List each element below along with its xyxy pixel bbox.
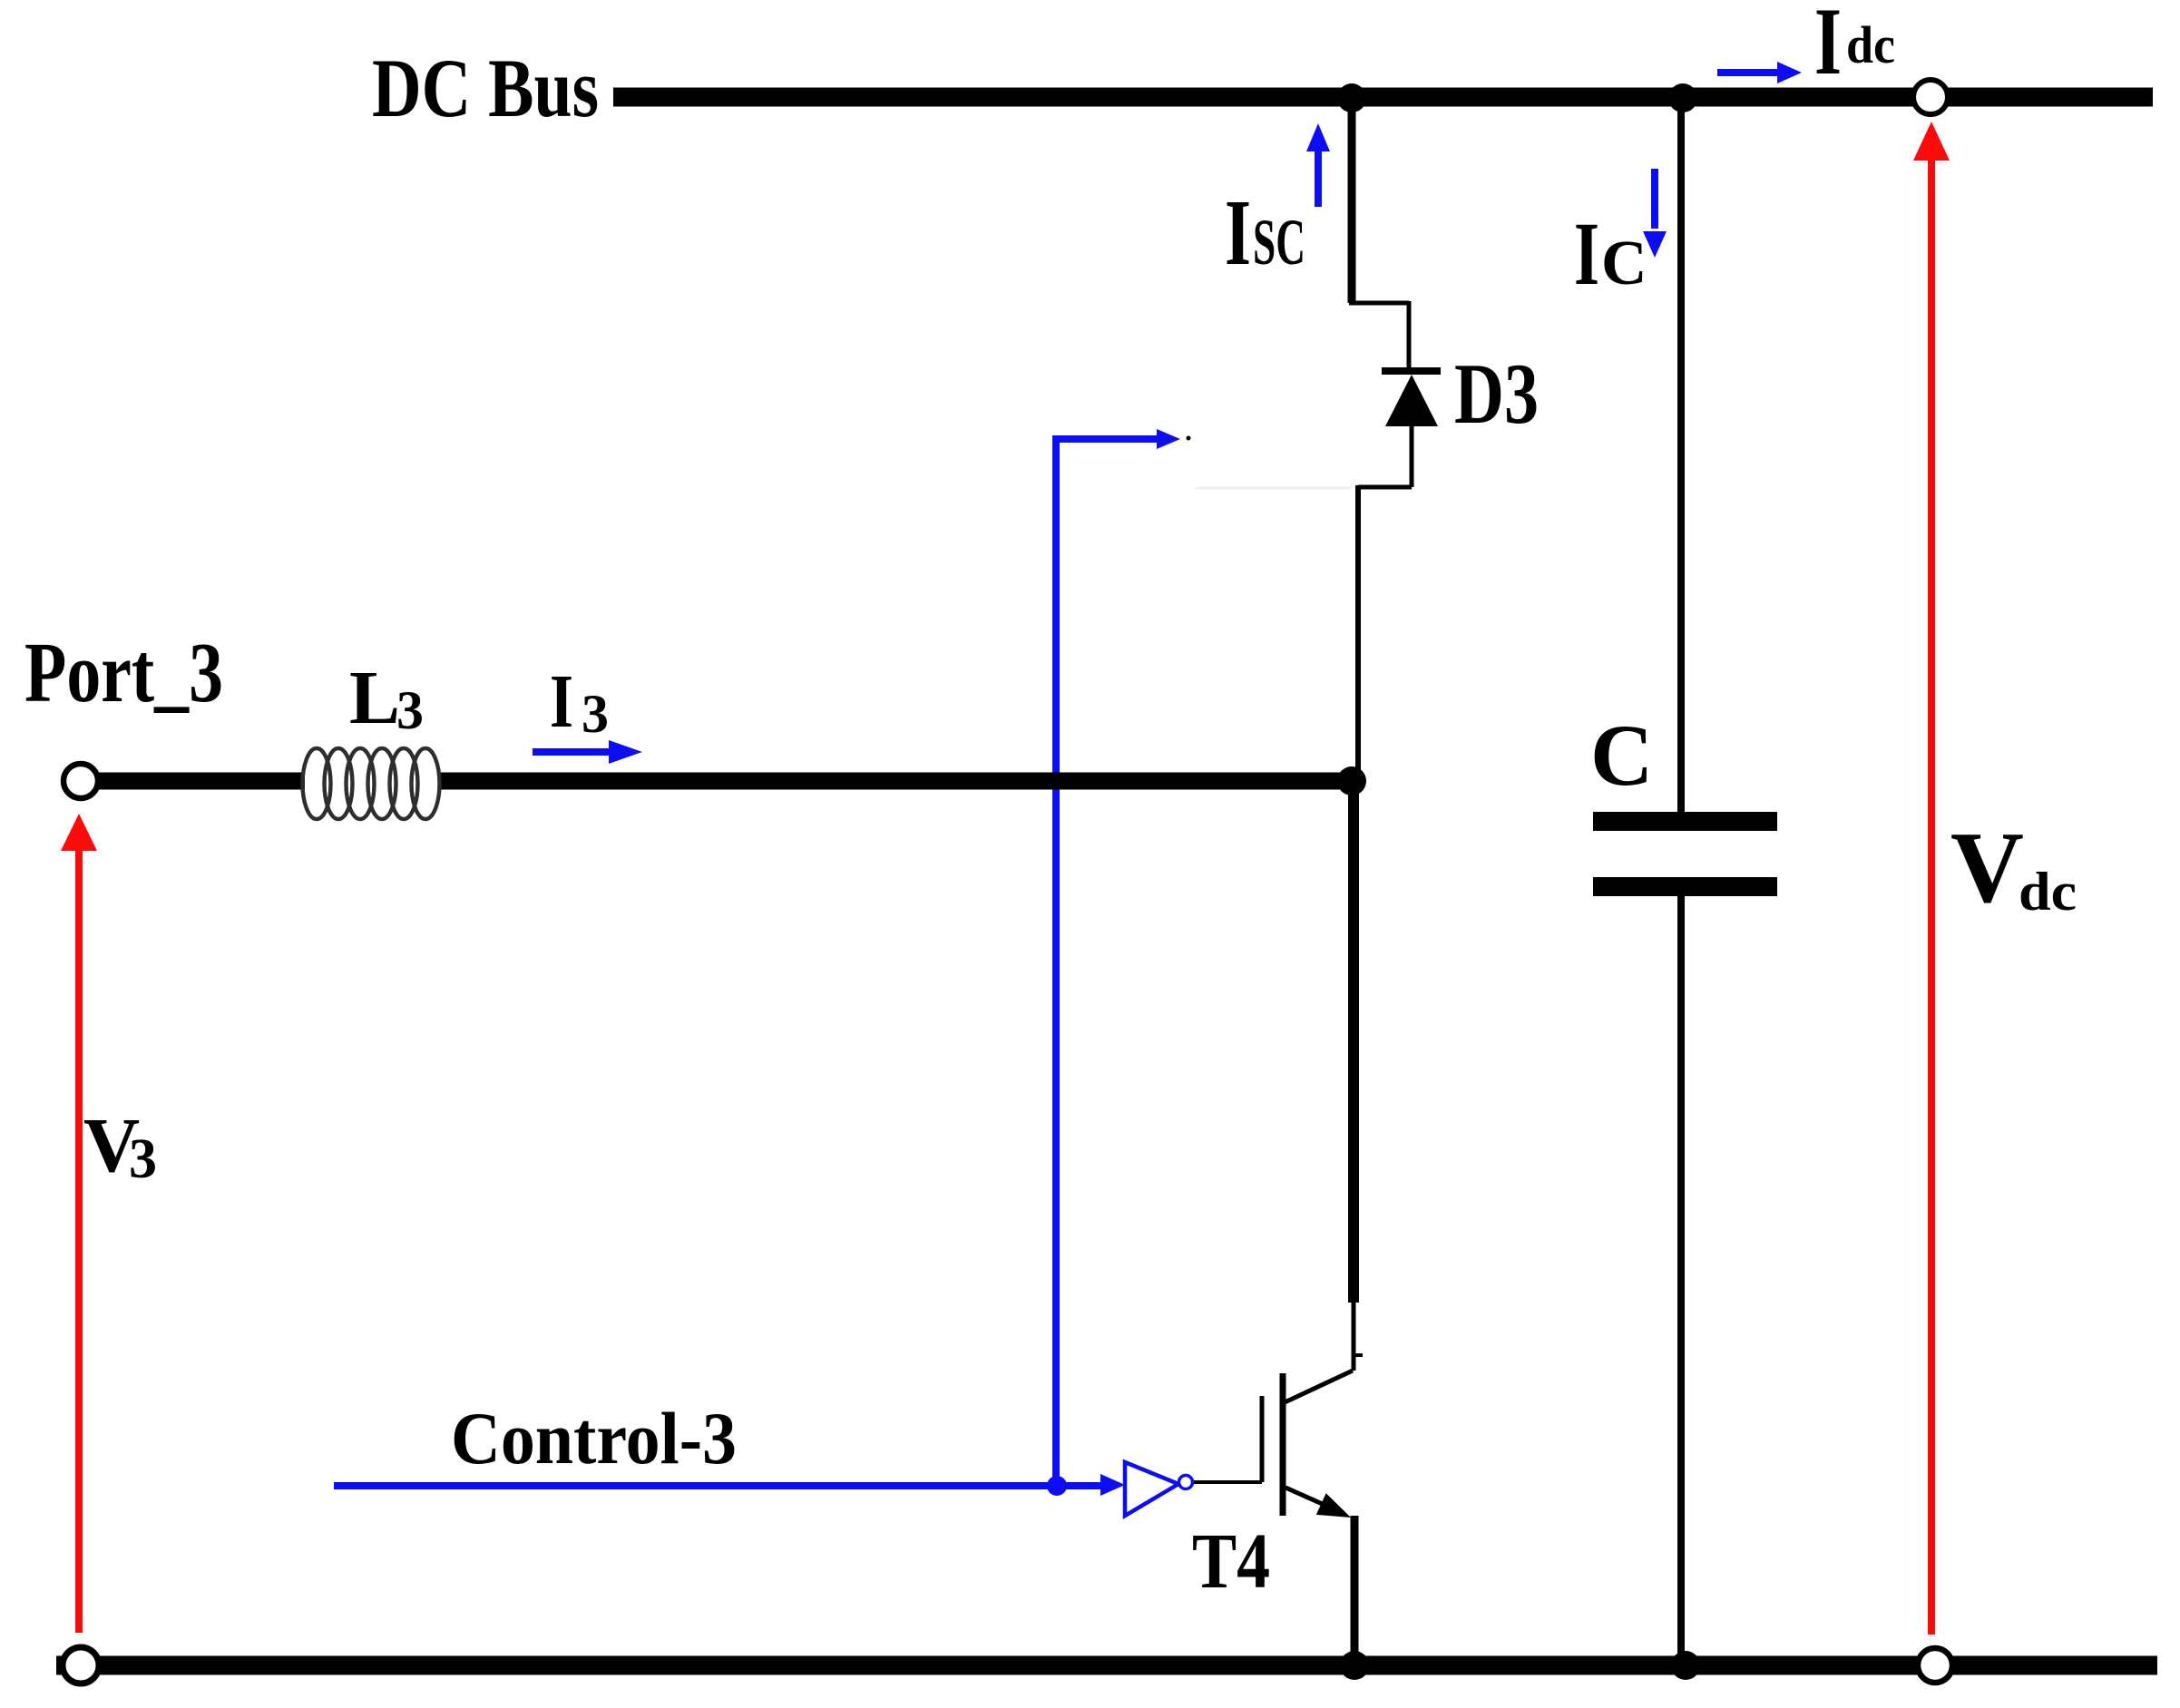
svg-text:I: I [1225, 181, 1251, 285]
svg-text:3: 3 [396, 680, 424, 740]
svg-text:dc: dc [2019, 862, 2077, 922]
svg-text:T4: T4 [1192, 1517, 1270, 1605]
svg-text:C: C [1601, 229, 1647, 298]
svg-text:C: C [1590, 707, 1653, 804]
svg-text:dc: dc [1846, 15, 1895, 74]
svg-text:V: V [1950, 812, 2024, 924]
svg-text:L: L [349, 656, 400, 740]
svg-text:Port_3: Port_3 [24, 626, 223, 720]
svg-text:DC Bus: DC Bus [372, 42, 599, 134]
svg-text:Control-3: Control-3 [451, 1397, 737, 1479]
svg-text:D3: D3 [1454, 346, 1539, 442]
svg-text:I: I [1574, 203, 1599, 304]
svg-text:3: 3 [129, 1128, 157, 1190]
svg-text:I: I [1814, 0, 1842, 94]
svg-text:I: I [550, 659, 573, 744]
svg-text:SC: SC [1253, 206, 1305, 278]
svg-text:3: 3 [582, 684, 609, 744]
